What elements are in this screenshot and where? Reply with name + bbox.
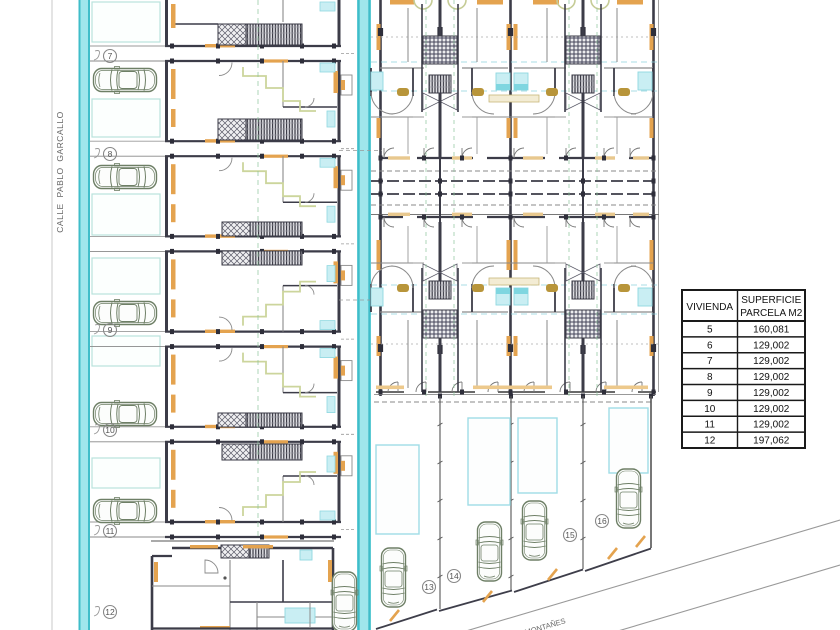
svg-text:11: 11	[106, 526, 115, 536]
svg-text:160,081: 160,081	[753, 324, 790, 335]
svg-text:7: 7	[707, 356, 713, 367]
svg-text:PARCELA M2: PARCELA M2	[740, 308, 802, 319]
svg-text:14: 14	[449, 571, 459, 581]
svg-text:6: 6	[707, 340, 713, 351]
svg-text:9: 9	[108, 325, 113, 335]
svg-text:VIVIENDA: VIVIENDA	[686, 302, 733, 313]
svg-text:129,002: 129,002	[753, 372, 790, 383]
svg-text:129,002: 129,002	[753, 404, 790, 415]
svg-text:5: 5	[707, 324, 713, 335]
svg-text:7: 7	[108, 51, 113, 61]
svg-text:SUPERFICIE: SUPERFICIE	[741, 295, 801, 306]
svg-text:16: 16	[597, 516, 607, 526]
svg-text:8: 8	[707, 372, 713, 383]
svg-text:9: 9	[707, 388, 713, 399]
svg-text:197,062: 197,062	[753, 436, 790, 447]
svg-text:15: 15	[565, 530, 575, 540]
svg-text:129,002: 129,002	[753, 388, 790, 399]
svg-text:12: 12	[704, 436, 716, 447]
svg-text:129,002: 129,002	[753, 340, 790, 351]
svg-text:11: 11	[705, 420, 716, 431]
svg-text:8: 8	[108, 149, 113, 159]
svg-text:CALLE PABLO GARCALLO: CALLE PABLO GARCALLO	[55, 111, 65, 232]
svg-text:10: 10	[704, 404, 716, 415]
svg-text:129,002: 129,002	[753, 420, 790, 431]
svg-text:129,002: 129,002	[753, 356, 790, 367]
svg-text:12: 12	[105, 607, 115, 617]
svg-text:10: 10	[105, 425, 115, 435]
svg-text:13: 13	[424, 582, 434, 592]
